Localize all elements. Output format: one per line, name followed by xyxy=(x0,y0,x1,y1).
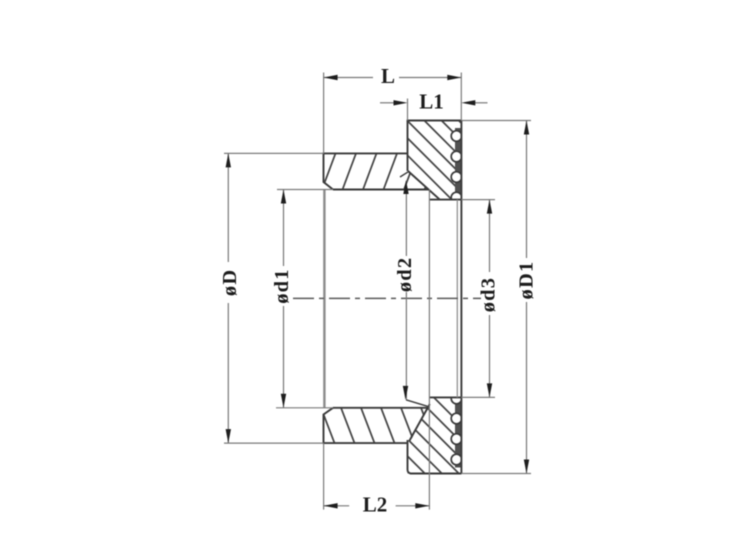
left face lower xyxy=(324,408,334,444)
ext L left / hub left face continuation top xyxy=(323,73,325,154)
flange left upper xyxy=(407,121,409,172)
hatch hub bottom xyxy=(301,408,435,443)
part outline xyxy=(324,121,462,474)
ext Od3 top xyxy=(461,199,495,201)
ext OD1 bottom xyxy=(461,473,531,475)
thread minor line through bore xyxy=(456,200,458,398)
arrow Od1 bottom xyxy=(281,394,286,408)
thread scallops bottom xyxy=(451,393,462,465)
cone bottom xyxy=(409,404,430,442)
ext OD1 top xyxy=(461,120,531,122)
arrow L1 left xyxy=(394,100,408,105)
flange left lower xyxy=(408,440,412,474)
left face edge seen through bore xyxy=(323,190,325,408)
svg-text:L1: L1 xyxy=(419,89,444,113)
dimension L1 xyxy=(380,102,488,104)
dimension Od1 xyxy=(283,190,285,408)
arrow OD bottom xyxy=(226,429,231,443)
arrow L1 right xyxy=(461,100,475,105)
dimension OD xyxy=(227,153,229,443)
svg-text:ød2: ød2 xyxy=(394,257,416,293)
dimension L2 xyxy=(324,505,430,507)
svg-text:øD1: øD1 xyxy=(516,261,538,300)
dimension L xyxy=(324,77,462,79)
ext Od1 bottom xyxy=(276,407,333,409)
arrow L right xyxy=(447,75,461,80)
ext OD top xyxy=(224,152,324,154)
svg-text:øD: øD xyxy=(219,269,241,296)
svg-text:L2: L2 xyxy=(363,492,388,516)
thread scallops top xyxy=(451,131,462,203)
flange top xyxy=(407,120,462,122)
bore d1 top xyxy=(333,189,429,191)
arrow Od2 bottom xyxy=(403,386,408,400)
hatch flange bottom xyxy=(309,392,515,479)
bore d3 bottom xyxy=(429,396,461,398)
hub top surface xyxy=(324,152,408,154)
bore d1 bottom xyxy=(333,407,429,409)
cone top xyxy=(408,171,440,199)
tick near d2 bottom arrow xyxy=(406,400,428,407)
arrow Od2 top xyxy=(403,180,408,194)
dimension Od3 xyxy=(489,200,491,398)
left face upper xyxy=(324,153,334,190)
dimension Od2 xyxy=(405,190,407,400)
bore d3 top xyxy=(429,199,461,201)
arrow Od1 top xyxy=(281,190,286,204)
thread root dark strip bottom xyxy=(455,397,461,467)
arrow OD top xyxy=(226,153,231,167)
ext Od1 top xyxy=(277,189,333,191)
svg-text:L: L xyxy=(381,64,395,88)
arrow OD1 bottom xyxy=(524,460,529,474)
hatch flange top xyxy=(315,115,544,206)
svg-text:ød1: ød1 xyxy=(271,268,293,304)
svg-text:ød3: ød3 xyxy=(478,277,500,313)
centerline xyxy=(293,297,481,299)
arrow Od3 top xyxy=(487,200,492,214)
ext Od3 bottom xyxy=(461,396,495,398)
arrow Od3 bottom xyxy=(487,383,492,397)
ext L2 left xyxy=(323,443,325,510)
arrow L left xyxy=(324,75,338,80)
ext L1 left xyxy=(407,99,409,121)
extension lines xyxy=(224,73,531,510)
ext OD bottom xyxy=(224,442,324,444)
ext L/L1 right xyxy=(460,73,462,121)
flange bottom xyxy=(410,473,461,475)
ext L2 right / bore step line xyxy=(428,190,430,510)
dimension OD1 xyxy=(526,121,528,474)
arrow L2 right xyxy=(415,503,429,508)
thread root dark strip top xyxy=(455,128,461,200)
hatch hub top xyxy=(302,153,439,189)
right face xyxy=(460,121,462,474)
arrow OD1 top xyxy=(524,121,529,135)
arrow L2 left xyxy=(324,503,338,508)
hub bottom surface xyxy=(324,442,408,444)
tick near d2 top arrow xyxy=(400,171,409,177)
